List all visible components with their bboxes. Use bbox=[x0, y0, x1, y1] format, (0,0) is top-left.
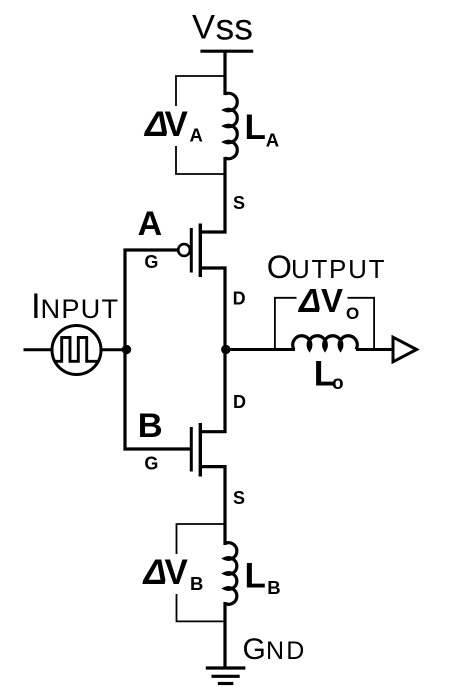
svg-text:Δ: Δ bbox=[297, 282, 321, 319]
svg-text:B: B bbox=[267, 577, 280, 598]
wire B source to LB bbox=[201, 467, 225, 545]
input terminal stub wire bbox=[24, 348, 53, 351]
transistor B (NMOS) bbox=[191, 423, 200, 477]
B channel bar bbox=[199, 423, 202, 477]
label INPUT bbox=[31, 287, 119, 326]
label delta-VO bbox=[297, 282, 360, 323]
svg-text:S: S bbox=[233, 488, 245, 508]
wire A drain to output node bbox=[201, 268, 225, 350]
PMOS bubble bbox=[178, 244, 190, 256]
output port triangle bbox=[393, 337, 417, 362]
A gate bar bbox=[190, 228, 193, 273]
B gate bar bbox=[190, 427, 193, 472]
svg-text:ND: ND bbox=[266, 637, 307, 665]
svg-text:D: D bbox=[233, 289, 246, 309]
pulse source (input generator) bbox=[52, 326, 101, 375]
transistor A (PMOS) bbox=[178, 224, 200, 278]
svg-text:L: L bbox=[245, 108, 266, 147]
wire input node to B gate bbox=[125, 349, 190, 449]
svg-text:L: L bbox=[245, 557, 266, 596]
svg-text:O: O bbox=[267, 249, 292, 285]
net label Vss bbox=[192, 6, 253, 48]
svg-text:NPUT: NPUT bbox=[41, 293, 120, 324]
svg-text:A: A bbox=[190, 125, 203, 146]
source circle bbox=[52, 326, 101, 375]
svg-text:A: A bbox=[266, 129, 279, 150]
svg-text:V: V bbox=[165, 553, 189, 592]
inductor LB bbox=[225, 543, 237, 605]
ground symbol bbox=[206, 668, 246, 684]
svg-text:Δ: Δ bbox=[142, 553, 168, 592]
svg-text:G: G bbox=[144, 454, 158, 474]
label OUTPUT bbox=[267, 249, 386, 285]
square-wave symbol bbox=[55, 338, 99, 362]
wire node to B drain (pin D) bbox=[201, 350, 225, 432]
label LO bbox=[314, 355, 344, 395]
svg-text:G: G bbox=[243, 633, 266, 666]
svg-text:V: V bbox=[321, 282, 343, 319]
wire LB to ground bbox=[223, 602, 226, 668]
junction dot input node bbox=[122, 345, 131, 354]
wire Vss rail to LA bbox=[223, 51, 226, 95]
svg-text:B: B bbox=[190, 573, 203, 594]
junction dot output node bbox=[221, 345, 230, 354]
net label GND bbox=[243, 633, 307, 666]
wire LO to output port bbox=[356, 348, 393, 351]
inductor LA bbox=[225, 93, 237, 158]
wire A gate to input node bbox=[125, 250, 178, 349]
svg-text:UTPUT: UTPUT bbox=[291, 254, 386, 284]
wire source to input node bbox=[101, 348, 127, 351]
label LB bbox=[245, 557, 281, 599]
supply rail Vss bar bbox=[200, 50, 253, 53]
svg-text:I: I bbox=[31, 287, 41, 326]
svg-text:ss: ss bbox=[216, 6, 254, 48]
A channel bar bbox=[199, 224, 202, 278]
svg-text:V: V bbox=[192, 9, 215, 47]
svg-text:D: D bbox=[233, 392, 246, 412]
svg-text:G: G bbox=[144, 252, 158, 272]
bracket for voltage delta-VO bbox=[275, 298, 374, 349]
svg-text:V: V bbox=[165, 105, 189, 144]
bracket for voltage delta-VB bbox=[177, 524, 226, 621]
svg-text:S: S bbox=[233, 193, 245, 213]
label delta-VB bbox=[141, 553, 203, 594]
svg-text:O: O bbox=[346, 304, 359, 323]
label delta-VA bbox=[143, 105, 203, 146]
svg-text:A: A bbox=[138, 205, 163, 243]
label LA bbox=[245, 108, 280, 150]
inductor LO bbox=[293, 336, 358, 350]
svg-text:o: o bbox=[332, 373, 344, 394]
wire LA to Q-A source (pin S) bbox=[201, 157, 225, 232]
bracket for voltage delta-VA bbox=[176, 76, 225, 174]
wire output node to LO bbox=[225, 348, 295, 351]
svg-text:B: B bbox=[138, 407, 163, 445]
